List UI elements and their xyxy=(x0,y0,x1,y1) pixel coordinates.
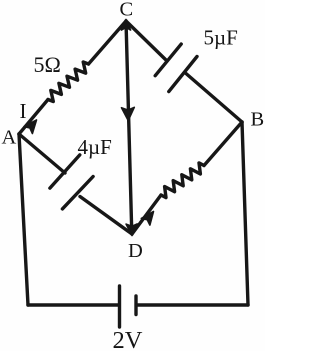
resistor R2 zigzag (D-B branch) xyxy=(161,163,204,198)
junction blob at node C xyxy=(121,20,130,31)
wire resistor R1 to node C xyxy=(89,21,127,64)
capacitor C1 5&#181;F plate 2 xyxy=(169,57,197,92)
wire capacitor C1 to node B xyxy=(186,74,242,123)
bottom wire left segment to battery xyxy=(28,303,119,306)
arrow mid C-D wire xyxy=(122,107,135,120)
wire capacitor C2 to node D xyxy=(80,197,132,235)
svg-text:C: C xyxy=(120,0,134,20)
capacitor C1 5&#181;F plate 1 xyxy=(155,44,181,76)
svg-text:B: B xyxy=(251,108,265,130)
svg-text:D: D xyxy=(128,240,143,262)
svg-text:I: I xyxy=(20,99,27,123)
battery B1 long plate xyxy=(118,286,121,327)
svg-text:A: A xyxy=(2,127,17,149)
svg-text:5µF: 5µF xyxy=(204,26,238,50)
capacitor C2 4&#181;F plate 1 xyxy=(50,155,80,188)
wire node D to resistor R2 xyxy=(132,195,161,234)
wire node A to capacitor C2 xyxy=(19,134,65,173)
bottom wire battery to bottom-right corner xyxy=(137,303,249,306)
battery B1 short plate xyxy=(134,296,137,315)
wire resistor R2 to node B xyxy=(204,122,242,166)
wire C to D (middle branch) xyxy=(126,21,132,234)
svg-text:5Ω: 5Ω xyxy=(34,52,61,77)
wire node A down to bottom-left corner xyxy=(19,134,28,305)
wire A to resistor R1 xyxy=(19,100,48,135)
svg-text:2V: 2V xyxy=(113,327,143,351)
arrowhead at node D on C-D wire xyxy=(126,224,137,236)
current arrow I on A-C wire xyxy=(24,120,37,134)
wire node B down to bottom-right corner xyxy=(242,122,248,305)
capacitor C2 4&#181;F plate 2 xyxy=(62,177,93,209)
arrow on D-B wire near D xyxy=(141,212,153,226)
wire node C to capacitor C1 top plate xyxy=(126,21,166,60)
svg-text:4µF: 4µF xyxy=(78,135,112,159)
resistor R1 5&#937; zigzag (A-C branch) xyxy=(48,62,89,102)
